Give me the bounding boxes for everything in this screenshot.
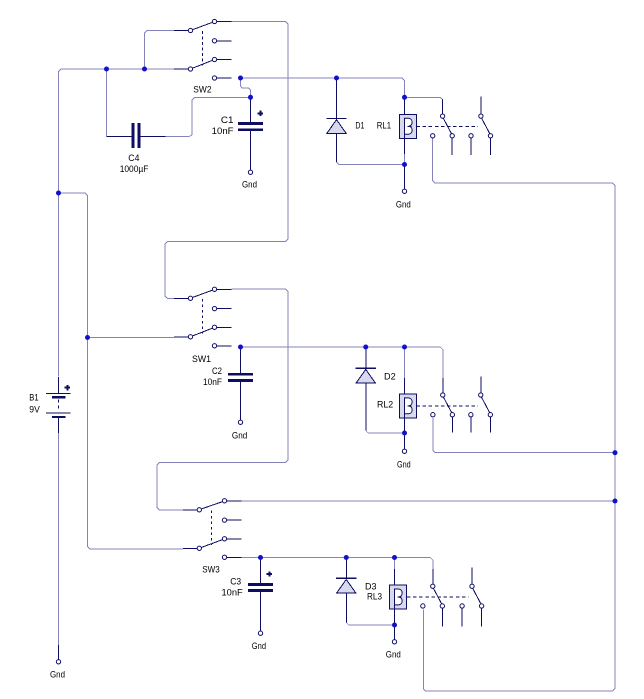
value 1000uF (120, 164, 149, 174)
svg-text:Gnd: Gnd (396, 200, 411, 210)
switch SW3 throw2 pin (222, 518, 241, 522)
junction RL3 coil bottom / D3 node (392, 623, 397, 628)
capacitor C3 (248, 583, 273, 592)
relay coil RL2 bottom pin (404, 414, 406, 433)
junction SW3 terminal / C3 node (258, 555, 263, 560)
label SW1 (192, 354, 211, 364)
svg-text:D1: D1 (355, 121, 364, 131)
label C4 (128, 153, 139, 163)
relay RL3 contact set2 lever (473, 589, 481, 604)
capacitor C3 plus sign (267, 571, 272, 576)
relay coil RL3 (389, 585, 407, 610)
junction RL2 coil top node (402, 345, 407, 350)
ground terminal (RL3) (392, 640, 396, 644)
junction RL1 coil bottom / D1 node (402, 162, 407, 167)
relay RL2 contact set1 pivot (441, 393, 445, 397)
label B1 (29, 393, 38, 403)
junction V+ rail / C4 left (104, 67, 109, 72)
switch SW1 throw3 pin (212, 325, 231, 329)
label Gnd (C3) (252, 641, 266, 651)
junction D2 cathode node (363, 345, 368, 350)
wire battery negative to ground (58, 433, 60, 645)
svg-text:D2: D2 (384, 371, 396, 381)
junction second rail / SW1 pole2 (85, 335, 90, 340)
junction right rail / SW3 throw1 (613, 499, 618, 504)
ground terminal (C1) (248, 170, 252, 174)
label Gnd (C1) (242, 180, 257, 190)
label RL2 (377, 399, 393, 409)
label Gnd (C2) (232, 431, 247, 441)
label D1 (355, 121, 364, 131)
relay RL2 contact set1 moving contact pin (450, 413, 454, 433)
switch SW1 bottom terminal pin (212, 344, 231, 348)
switch SW2 gang link (dashed) (202, 31, 204, 65)
relay RL3 link to contacts (dashed) (407, 596, 469, 598)
switch SW3 throw1 pin (222, 499, 241, 503)
wire RL2 coil top pin upper (blue part) (404, 347, 406, 378)
relay RL2 link to contacts (dashed) (417, 405, 479, 407)
switch SW3 lever pole1 (202, 502, 223, 509)
svg-text:Gnd: Gnd (50, 670, 65, 680)
relay RL2 contact set2 pivot (479, 393, 483, 397)
junction battery rail / second rail (56, 191, 61, 196)
relay RL2 contact set2 common terminal (469, 413, 473, 433)
wire SW2 throw1 to SW1 pole1 common (165, 22, 288, 299)
switch SW2 throw2 pin (212, 39, 231, 43)
diode D1 (326, 119, 346, 134)
capacitor C2 bottom lead (240, 382, 242, 420)
wire zigzag SW2 terminal to C1 node (241, 78, 251, 97)
label C1 (221, 115, 234, 125)
svg-text:Gnd: Gnd (397, 459, 411, 469)
capacitor C3 bottom lead (260, 592, 262, 631)
switch SW3 lever pole2 (202, 540, 223, 548)
relay RL1 contact set1 common terminal (431, 134, 435, 138)
diode D2 (356, 368, 376, 383)
relay coil RL1 top pin (404, 97, 406, 118)
value 9V (29, 405, 40, 415)
diode D1 cathode lead (336, 78, 338, 119)
switch SW2 throw1 pin (212, 19, 231, 23)
relay RL1 contact set2 pivot (479, 114, 483, 118)
capacitor C4 (107, 123, 166, 148)
switch SW2 throw3 pin (212, 57, 231, 61)
svg-text:C1: C1 (221, 115, 234, 125)
svg-text:Gnd: Gnd (252, 641, 266, 651)
label D3 (365, 582, 377, 592)
battery ground lead (58, 645, 60, 659)
relay RL3 contact set1 moving contact pin (440, 604, 444, 627)
label SW3 (202, 565, 220, 575)
svg-text:SW3: SW3 (202, 565, 220, 575)
switch SW2 bottom terminal pin (212, 76, 231, 80)
wire SW1 terminal row y=347 to RL2 contact pivot (241, 347, 443, 378)
relay RL3 contact set1 pivot (431, 584, 435, 588)
capacitor C2 (228, 373, 253, 382)
wire RL1 node to contact set1 pivot (405, 97, 443, 100)
diode D3 cathode lead (345, 558, 347, 579)
svg-text:C4: C4 (128, 153, 139, 163)
value 10nF (C3) (222, 587, 244, 597)
svg-text:10nF: 10nF (222, 587, 244, 597)
svg-text:Gnd: Gnd (232, 431, 247, 441)
relay coil RL1 (399, 114, 417, 139)
relay RL1 gnd lead (404, 165, 406, 189)
label Gnd (RL2) (397, 459, 411, 469)
relay RL2 contact set1 lever (444, 397, 452, 412)
relay RL3 contact set2 common terminal (460, 604, 464, 627)
relay RL1 contact set1 pivot (440, 114, 444, 118)
ground terminal (battery) (56, 660, 60, 664)
relay coil RL2 (399, 393, 417, 418)
switch SW3 pole2 common pin (183, 546, 201, 550)
wire second rail to SW1 pole2 common y=337.5 (88, 337, 175, 339)
svg-text:RL2: RL2 (377, 399, 393, 409)
relay RL3 contact set2 pivot pin up (471, 568, 473, 584)
wire battery junction row y=193 to second rail x=87.5 down to SW3 pole2 common (59, 193, 184, 549)
diode D3 anode lead (345, 593, 347, 622)
switch SW2 lever pole1 (193, 22, 213, 29)
switch SW1 throw1 pin (212, 287, 231, 291)
svg-text:RL3: RL3 (367, 592, 382, 602)
value 10nF (C1) (212, 126, 234, 136)
svg-text:C3: C3 (230, 577, 241, 587)
label C3 (230, 577, 241, 587)
junction RL2 coil bottom / D2 node (402, 431, 407, 436)
switch SW3 gang link (dashed) (210, 510, 212, 544)
relay RL1 link to contacts (dashed) (417, 125, 479, 127)
diode D3 (336, 578, 356, 593)
svg-text:Gnd: Gnd (386, 650, 401, 660)
svg-text:10nF: 10nF (212, 126, 234, 136)
switch SW1 lever pole2 (193, 328, 213, 336)
relay RL2 gnd lead (404, 433, 406, 449)
relay RL1 contact set2 pivot pin up (480, 96, 482, 113)
relay RL1 contact set2 lever (482, 118, 490, 133)
wire C4 left drop x=106.5 (106, 69, 108, 136)
battery B1 (46, 377, 70, 433)
relay coil RL2 top pin (404, 378, 406, 398)
wire D1 anode to RL1 bottom node y=164.5 (337, 162, 405, 165)
wire D3 anode to RL3 bottom node y=625 (346, 623, 394, 626)
junction D1 cathode node (334, 76, 339, 81)
switch SW1 throw2 pin (212, 306, 231, 310)
svg-text:RL1: RL1 (377, 121, 391, 131)
relay RL1 contact set1 lever (443, 118, 451, 133)
label Gnd (battery) (50, 670, 65, 680)
junction C1 / C4 node (248, 95, 253, 100)
label D2 (384, 371, 396, 381)
capacitor C1 top lead (250, 97, 252, 122)
wire V+ riser to SW2 pole1 common (145, 31, 189, 70)
svg-text:10nF: 10nF (203, 377, 222, 387)
wire SW3 throw1 to right rail y=501 (242, 500, 616, 502)
label Gnd (RL1) (396, 200, 411, 210)
wire D2 anode to RL2 bottom node y=433 (366, 431, 405, 434)
junction RL3 coil top node (392, 555, 397, 560)
capacitor C3 top lead (260, 558, 262, 584)
wire RL3 coil top pin upper (blue part) (394, 558, 396, 570)
capacitor C1 bottom lead (250, 131, 252, 170)
switch SW2 pole2 common pin (174, 67, 193, 71)
relay coil RL1 bottom pin (404, 134, 406, 154)
svg-text:Gnd: Gnd (242, 180, 257, 190)
relay RL3 contact set1 lever (434, 589, 442, 604)
label RL1 (377, 121, 391, 131)
ground terminal (RL1) (402, 189, 406, 193)
relay RL1 contact set2 moving contact pin (488, 134, 492, 155)
capacitor C2 top lead (240, 347, 242, 373)
value 10nF (C2) (203, 377, 222, 387)
diode D2 anode lead (365, 383, 367, 430)
wire SW3 terminal row y=557.5 to RL3 contact pivot (242, 558, 433, 570)
relay coil RL3 bottom pin (394, 605, 396, 625)
ground terminal (RL2) (402, 449, 406, 453)
relay RL2 contact set2 lever (482, 397, 490, 412)
relay RL1 contact set2 common terminal (469, 134, 473, 155)
diode D2 cathode lead (365, 347, 367, 368)
junction V+ rail / SW2 pole1 riser (142, 67, 147, 72)
wire RL1 contact common down right rail x=615 bottom rail to RL3 contact common (423, 138, 615, 691)
switch SW3 throw3 pin (222, 537, 241, 541)
junction RL1 coil top node (402, 95, 407, 100)
svg-text:1000µF: 1000µF (120, 164, 149, 174)
svg-text:B1: B1 (29, 393, 38, 403)
relay RL3 contact set2 moving contact pin (479, 604, 483, 627)
relay RL1 contact set1 moving contact pin (450, 134, 454, 155)
capacitor C1 (238, 122, 263, 131)
junction D3 cathode node (344, 555, 349, 560)
svg-text:SW2: SW2 (193, 84, 211, 94)
ground terminal (C2) (238, 420, 242, 424)
relay coil RL3 top pin (394, 569, 396, 589)
label C2 (212, 366, 222, 376)
relay RL2 contact set2 moving contact pin (488, 413, 492, 433)
switch SW1 gang link (dashed) (202, 299, 204, 333)
label SW2 (193, 84, 211, 94)
wire RL2 contact common to right rail y=452.7 (433, 418, 615, 453)
switch SW3 pole1 common pin (183, 508, 201, 512)
svg-text:9V: 9V (29, 405, 40, 415)
wire V+ rail y=69 and battery rail x=58.5 upper (59, 69, 189, 376)
wire RL1 coil bottom pin lower (blue part) (404, 154, 406, 164)
switch SW1 pole2 common pin (174, 335, 193, 339)
switch SW1 lever pole1 (193, 290, 213, 297)
battery B1 plus sign (65, 385, 70, 390)
ground terminal (C3) (258, 631, 262, 635)
relay RL2 contact set1 common terminal (431, 413, 435, 417)
svg-text:C2: C2 (212, 366, 222, 376)
svg-text:SW1: SW1 (192, 354, 211, 364)
switch SW3 bottom terminal pin (222, 555, 241, 559)
capacitor C1 plus sign (258, 111, 263, 116)
junction SW1 terminal / C2 node (238, 345, 243, 350)
relay RL3 contact set1 pivot pin (432, 569, 434, 584)
junction SW2 terminal / zig (238, 76, 243, 81)
label RL3 (367, 592, 382, 602)
relay RL3 contact set1 common terminal (421, 604, 425, 608)
switch SW2 lever pole2 (193, 60, 213, 68)
switch SW2 pole1 common pin (174, 28, 193, 32)
relay RL1 contact set1 pivot pin (442, 99, 444, 114)
wire SW2 terminal row y=78 to RL1 node (241, 78, 405, 97)
wire SW1 throw1 to SW3 pole1 common (157, 289, 288, 510)
wire C1 node to C4 right lead (166, 97, 251, 136)
relay RL2 contact set1 pivot pin (442, 378, 444, 393)
svg-text:D3: D3 (365, 582, 377, 592)
switch SW1 pole1 common pin (174, 296, 193, 300)
junction right rail / RL2 contact (613, 450, 618, 455)
relay RL3 contact set2 pivot (470, 584, 474, 588)
relay RL3 gnd lead (394, 625, 396, 639)
relay RL2 contact set2 pivot pin up (480, 376, 482, 392)
diode D1 anode lead (336, 133, 338, 162)
label Gnd (RL3) (386, 650, 401, 660)
